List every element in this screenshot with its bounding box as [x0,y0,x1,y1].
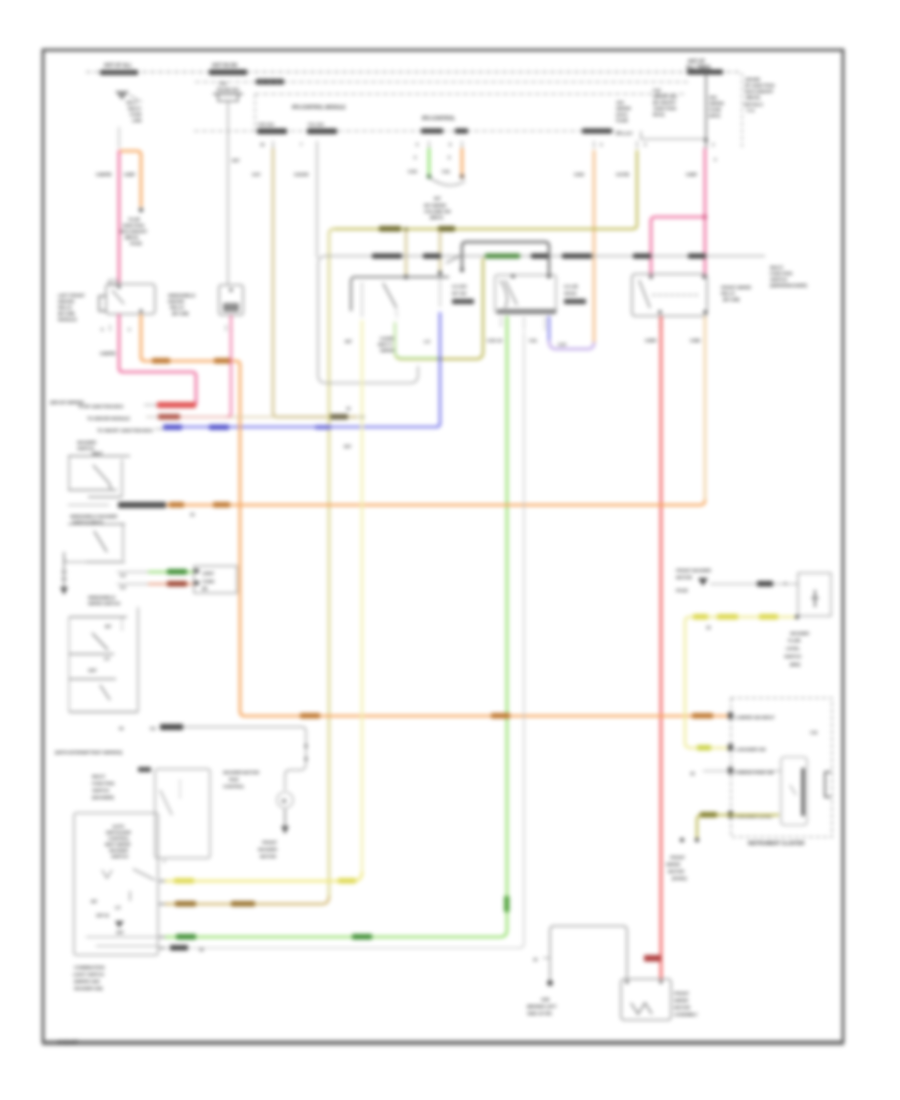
box: wiper switch left section outline [351,277,449,311]
ground: G08 loop to wiper motor [533,926,627,986]
svg-text:FLUID: FLUID [788,638,801,643]
svg-text:HOT AT ALL: HOT AT ALL [104,63,133,69]
svg-text:2 WIPER SW INPUT: 2 WIPER SW INPUT [735,715,775,720]
svg-text:P. 8: P. 8 [747,108,755,114]
bus: smart junction box dashed bottom line [194,122,620,134]
svg-text:ALL TIMES: ALL TIMES [686,65,711,71]
label: washer motor text [223,770,260,789]
svg-text:0.3G 16: 0.3G 16 [487,338,503,343]
svg-text:(PARK): (PARK) [672,876,687,881]
svg-text:0.85P/B: 0.85P/B [100,351,116,356]
connector: data link stub rows green and red [117,569,194,590]
label: blue bold labels on row 427 [163,425,182,431]
svg-text:TO I/P JUNCTION BOX: TO I/P JUNCTION BOX [78,404,124,409]
svg-text:WIPER: WIPER [616,106,631,112]
svg-text:FRONT: FRONT [670,855,685,860]
relay: windshield deicer relay K1 [99,280,155,314]
node: junction dot on yellow wire [360,415,364,419]
svg-text:FUNCTION: FUNCTION [770,271,793,276]
label: washer int box text left [92,774,115,800]
box: multifunction switch outer outline [318,256,765,383]
wire: gray row 727 to washer motor [119,724,308,762]
svg-text:RELAY: RELAY [58,305,72,310]
wire: red long vertical from relay to wiper motor [660,316,663,980]
label: text under orange row [70,514,118,525]
svg-text:RELAY: RELAY [721,291,735,296]
label: intermittent volume switch text [424,196,451,220]
wire: gray vertical x317 into switch box [316,148,318,258]
svg-text:WASHER: WASHER [77,440,97,445]
svg-text:MULTI: MULTI [128,106,141,111]
label: yellow bold labels row 881 [174,878,194,884]
node: junction dots on olive row [404,227,408,231]
svg-text:VOLUME SW: VOLUME SW [424,209,451,214]
svg-text:INT: INT [345,339,352,344]
svg-text:0.85P: 0.85P [124,172,135,177]
label: text block fuse name [653,88,678,118]
svg-text:I/P JUNCTION: I/P JUNCTION [745,83,775,89]
svg-text:(WITH INTERMITTENT WIPERS): (WITH INTERMITTENT WIPERS) [55,750,123,756]
svg-text:J/BOX): J/BOX) [124,235,139,240]
component: fusible link cluster top left [115,91,143,148]
svg-text:TO I/P: TO I/P [128,217,140,222]
svg-text:SIDE OF I/P): SIDE OF I/P) [527,1011,552,1016]
svg-text:DEICER: DEICER [58,299,75,304]
svg-text:SWITCH: SWITCH [92,788,110,793]
svg-text:(25A): (25A) [709,113,721,119]
svg-text:FRONT WASHER: FRONT WASHER [676,568,712,573]
label: deicer relay text left [58,293,85,322]
wire: feed from bus to junction (dark) [705,70,707,148]
svg-text:MULTI: MULTI [92,774,105,779]
svg-text:0.5Br: 0.5Br [690,338,701,343]
svg-text:WASHER: WASHER [109,848,129,853]
box: instrument cluster dashed outline [731,698,832,837]
wire: pale yellow left drop from olive row to shift box [329,229,334,898]
svg-text:I/P-E JCT: I/P-E JCT [616,131,633,136]
svg-text:WASHER SW): WASHER SW) [74,986,103,991]
svg-text:G08: G08 [541,997,550,1002]
svg-text:RELAY: RELAY [170,305,184,310]
label: left section pin labels [345,336,431,353]
svg-text:0.5: 0.5 [150,726,156,731]
connector: joint connector box [194,566,237,593]
wire: pink feed left vertical [118,150,121,284]
wire: khaki vertical x273 to merge row [273,148,358,417]
wire: yellow row 617 with drop to cluster [685,614,799,751]
component: fuse F14 with label [213,81,243,101]
svg-text:LO: LO [424,339,431,344]
svg-text:M: M [282,799,286,805]
svg-text:ASSEMBLY: ASSEMBLY [674,1012,698,1017]
svg-text:LEVEL: LEVEL [786,646,800,651]
wire: gray row 584 into sensor box [710,581,799,587]
svg-text:MOTOR: MOTOR [260,854,277,859]
label: hot at all times (left) [100,63,138,76]
label: washer fluid text block with down arrow [676,568,712,593]
svg-text:FUSE: FUSE [130,112,142,117]
label: pin labels on switch top line [372,254,706,259]
svg-text:FRONT: FRONT [674,991,689,996]
svg-text:(WIPER AND: (WIPER AND [74,979,101,984]
node: blue crossing dot on olive row [438,357,442,361]
svg-text:(IN SMART: (IN SMART [653,100,676,106]
node: fuse block connector on bus [687,70,723,75]
svg-text:SWITCH: SWITCH [77,446,95,451]
svg-text:MOTOR: MOTOR [676,575,693,580]
svg-text:0.3G/B: 0.3G/B [380,336,394,341]
svg-text:0.3: 0.3 [120,573,126,578]
wire: gray stub row 948 [165,332,524,952]
label: relay pin labels below [645,318,705,343]
svg-text:LINK: LINK [132,118,143,123]
svg-text:JOINT: JOINT [202,571,214,576]
svg-text:0.5G/W: 0.5G/W [294,172,309,177]
switch: washer switch S2 ladder [60,524,125,595]
svg-text:WINDSHIELD: WINDSHIELD [88,595,116,600]
svg-text:INT SW: INT SW [452,291,467,296]
svg-text:PAGE: PAGE [130,241,142,246]
svg-text:LO: LO [115,905,121,910]
svg-text:INT: INT [91,899,98,904]
svg-text:MIST WIPER: MIST WIPER [105,842,131,847]
label: to power connector text under orange dot [120,217,147,246]
relay: front wiper relay box [632,274,707,316]
label: ground G08 text [527,997,557,1016]
label: pin under relay 2 [226,325,233,332]
switch: wiper switch S3 ladder [69,595,138,712]
component: washer pump motor M1 [277,762,306,834]
node: pink junction dot [703,215,707,219]
box: shift lever switch assembly [74,813,158,955]
connector: cluster right bracket [825,772,831,797]
connector: E1 on left section right side [452,284,474,304]
svg-text:INT: INT [105,624,112,629]
svg-text:OFF: OFF [116,930,124,935]
bus: smart junction box dashed outline (second inner line) [255,93,686,95]
svg-text:0.3: 0.3 [120,585,126,590]
node: cluster pins on left edge [728,712,733,818]
svg-text:SWITCH: SWITCH [111,854,129,859]
wire: pale green lever branch overlay [395,322,440,358]
svg-text:0.5Y/B: 0.5Y/B [616,172,630,177]
label: orange bold labels [152,358,713,719]
wire: pink branch to relay left pin [651,217,703,276]
svg-text:0.3L: 0.3L [529,338,538,343]
svg-text:CONTROL: CONTROL [108,836,130,841]
node: pins on shift box right edge [159,881,165,948]
label: pins under relay K1 [101,325,131,332]
label: wiper motor text block [674,991,698,1017]
label: right section pin labels [487,338,538,343]
switch: left section contacts and lever [362,278,440,318]
svg-text:F11 10A: F11 10A [308,122,325,127]
svg-text:LIGHT SWITCH: LIGHT SWITCH [73,972,105,977]
svg-text:AHQ0427: AHQ0427 [57,1040,78,1046]
svg-text:RUN: RUN [229,777,239,782]
svg-text:WINDSHIELD WASHER: WINDSHIELD WASHER [70,514,118,519]
svg-text:16: 16 [690,771,695,776]
svg-text:WASH: WASH [564,291,576,296]
wire: dashed vertical left edge of sjb box [254,94,256,131]
svg-text:(WIPER/WASHER): (WIPER/WASHER) [770,283,807,288]
svg-text:SPARE: SPARE [745,77,761,83]
svg-text:0.3 L/B: 0.3 L/B [564,284,579,289]
svg-text:COMBINATION: COMBINATION [74,965,105,970]
svg-text:HOT IN ON: HOT IN ON [212,63,237,69]
wire: dashed vertical spare branch [741,73,743,148]
svg-text:0.5W: 0.5W [574,172,585,177]
svg-text:WIPER 25A: WIPER 25A [653,94,678,100]
box: cluster internal gauge module [781,757,807,825]
svg-text:FRONT WIPER: FRONT WIPER [721,285,752,290]
svg-text:WIPER: WIPER [709,101,724,107]
wire: pink bus vertical right [704,148,707,276]
wire: olive from pin row down and left to lever [395,258,483,359]
svg-text:0.3G: 0.3G [408,169,418,174]
svg-text:INT: INT [434,196,441,201]
svg-text:(IND): (IND) [790,662,801,667]
svg-text:JUNCTION: JUNCTION [122,223,145,228]
svg-text:TO DEICER MODULE: TO DEICER MODULE [87,416,130,421]
svg-text:0.3V: 0.3V [558,342,567,347]
wire: orange row 505 long run to tan [68,500,705,517]
svg-text:WIPER: WIPER [380,348,395,353]
svg-text:INSTRUMENT CLUSTER: INSTRUMENT CLUSTER [748,841,805,847]
box: washer fluid level sensor [784,573,831,616]
wire: tan from relay down to orange row [704,316,706,502]
label: cluster internal row labels [735,715,775,819]
svg-text:MOTOR: MOTOR [668,869,685,874]
svg-text:OFF HI: OFF HI [96,913,109,918]
svg-text:HI: HI [119,726,123,731]
svg-text:BOX (SMART: BOX (SMART [745,89,774,95]
switch: washer switch S1 ladder [68,440,130,497]
wire: green long vertical from switch to shift box row [165,316,507,937]
svg-text:PAGE: PAGE [676,588,688,593]
svg-text:(E): (E) [202,586,208,591]
bus: hot at all times dashed line [86,71,742,73]
svg-text:WINDSHIELD: WINDSHIELD [168,293,196,298]
wire: orange long vertical x594 [593,150,596,344]
svg-text:0.3L: 0.3L [442,169,451,174]
node: junction dots at switch top [446,256,460,263]
svg-text:IPS CONTROL MODULE: IPS CONTROL MODULE [292,105,346,111]
svg-text:DEFOGGER: DEFOGGER [106,830,132,835]
svg-text:ROOM 15A: ROOM 15A [217,87,240,92]
wire: khaki drop x406 from olive row to switch [405,230,407,276]
connector: E2 middle [564,284,586,304]
label: wiper motor park text block [666,855,687,881]
svg-text:MODULE: MODULE [58,317,77,322]
svg-text:E07: E07 [232,158,240,163]
svg-text:F20 10A: F20 10A [258,122,275,127]
wire: olive from connector down and across y229 [334,150,637,232]
svg-text:WIPER: WIPER [674,998,689,1003]
label: text block right of pink feed [709,95,724,119]
relay: deicer relay 2 narrow box [219,285,243,315]
switch: intermittent wiper volume switch (green/orange stubs) [408,148,465,185]
svg-text:(MIST): (MIST) [430,215,444,220]
svg-text:SWITCH: SWITCH [770,277,788,282]
label: shift box bottom text [73,965,105,991]
svg-text:FUSE: FUSE [709,107,722,113]
label: multifunction switch title block right [770,265,807,288]
svg-text:(IN SJB): (IN SJB) [172,311,189,316]
label: hot in on or start [209,63,284,85]
svg-text:WASHER: WASHER [258,847,278,852]
svg-text:E07: E07 [344,444,352,449]
label: relay 2 text block [168,293,196,316]
svg-text:(10A): (10A) [616,112,628,118]
label: hot at all times (right) [686,59,711,71]
svg-text:0.85P/B: 0.85P/B [96,172,112,177]
wire: orange output of K1 to long run [141,314,731,716]
wire: blue from switch down to row 427 and left [163,312,440,427]
svg-text:16: 16 [199,947,204,952]
svg-text:FUSE: FUSE [616,118,629,124]
connector: E3 right of relay [721,285,752,302]
svg-text:WASHER: WASHER [790,631,810,636]
label: green bold labels on row 937 [176,934,196,940]
wire: orange branch from pink feed [120,151,143,212]
label: off page row 405 [78,402,196,409]
label: off page row 429 with blue [97,428,163,433]
bus: smart junction box dashed outline (upper inner line) [195,81,688,83]
svg-text:CONN: CONN [202,579,214,584]
wire: gray link to fuse leg [616,131,708,142]
wire: blue short from switch to purple link [548,316,550,342]
switch: right section levers and base [497,280,556,330]
svg-text:10A: 10A [616,100,625,106]
svg-text:(WASHER): (WASHER) [92,795,114,800]
wire: yellow from switch contact down to shift box row 881 [361,320,363,874]
svg-text:OFF: OFF [88,668,97,673]
wire: khaki drop x440 from olive row to switch [439,230,441,272]
svg-text:WASHER MOTOR: WASHER MOTOR [223,770,260,775]
label: spare fuse text block [744,77,775,114]
wire: merge row 417 thin lead [146,414,273,420]
svg-text:F10: F10 [653,88,661,94]
svg-text:INT WIPER: INT WIPER [424,203,447,208]
label: bold wire label on merge row [328,414,348,420]
svg-text:IPS CONTROL: IPS CONTROL [422,116,456,122]
label: amber bold label on row 904 [175,901,196,907]
svg-text:F34: F34 [219,81,227,86]
svg-text:(IN SJB): (IN SJB) [723,297,740,302]
label: red wire label bottom [644,955,661,962]
svg-text:MULTI: MULTI [770,265,783,270]
label: sensor text block below [784,631,810,667]
svg-text:JUNCTION: JUNCTION [653,106,677,112]
svg-text:0.85R: 0.85R [645,338,657,343]
svg-text:LEFT FRONT: LEFT FRONT [58,293,85,298]
svg-text:WIPER: WIPER [666,862,681,867]
svg-text:16: 16 [706,625,711,630]
label: text block right of ign fuse [616,100,631,124]
svg-text:AUTO: AUTO [112,824,125,829]
svg-text:(BEHIND LEFT: (BEHIND LEFT [527,1004,557,1009]
svg-text:BOX): BOX) [653,112,665,118]
svg-text:LO: LO [104,656,110,661]
wire: pink from relay2 to merge row 417 [227,315,231,417]
svg-text:30A F: 30A F [126,100,138,105]
svg-text:0.5Y: 0.5Y [252,172,261,177]
box: washer switch int box [138,767,210,858]
svg-text:MIST P: MIST P [378,342,392,347]
svg-text:0.3 G/O: 0.3 G/O [452,284,467,289]
svg-text:FUNCTION: FUNCTION [92,781,115,786]
svg-text:DETAILS: DETAILS [744,102,764,108]
wire: pink relay K1 output S-path to row 405 [119,314,196,405]
svg-text:SWITCH: SWITCH [784,654,802,659]
svg-text:TO SMART JUNCTION BOX: TO SMART JUNCTION BOX [97,428,154,433]
svg-text:MOTOR: MOTOR [674,1005,691,1010]
svg-text:25A: 25A [709,95,718,101]
label: washer motor bottom text [258,840,278,859]
svg-text:0.85P: 0.85P [686,172,697,177]
svg-text:1 WASHER SW: 1 WASHER SW [735,747,766,752]
node: connector pin ticks row [260,141,717,162]
motor: front wiper motor box with park switch [621,979,671,1020]
svg-text:WIPER SWITCH: WIPER SWITCH [88,601,121,606]
svg-text:BOX (SMART: BOX (SMART [120,229,147,234]
label: wire color labels under connector row [96,158,697,177]
svg-text:DEICER: DEICER [168,299,185,304]
svg-text:CONTROL: CONTROL [223,784,245,789]
svg-text:FRONT: FRONT [262,840,277,845]
wire: gray from fuse to deicer relay [227,102,229,285]
wire: gray row 771 inside cluster lead [690,771,781,776]
wire: purple link to orange vertical [549,340,594,349]
svg-text:C16: C16 [810,730,818,735]
wire: olive row 815 into cluster with drop to park dot [680,812,779,842]
box: wiper switch right section outline [495,275,556,313]
wire: thick gray link between wiper switch sections [462,242,549,274]
svg-text:(IN SJB): (IN SJB) [58,311,75,316]
svg-text:J/BOX): J/BOX) [745,95,760,101]
